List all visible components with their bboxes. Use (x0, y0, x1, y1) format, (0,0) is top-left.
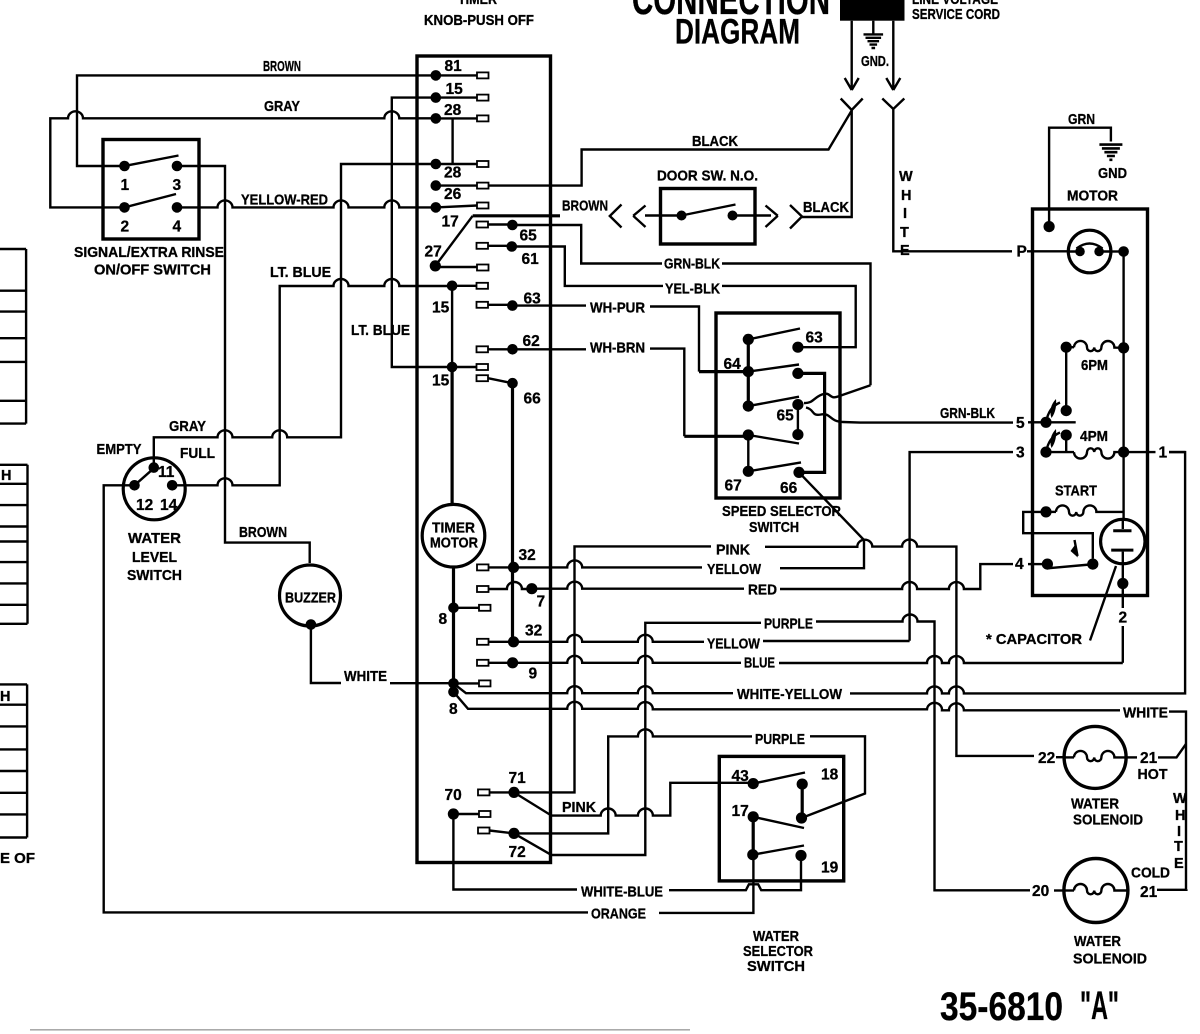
timer contact 26 (431, 180, 489, 203)
timer contact 70 (445, 787, 491, 820)
wire WH-BRN timer 62 to speed selector 67 (513, 341, 749, 437)
svg-text:TIMER: TIMER (432, 521, 476, 537)
wire YEL-BLK timer 61 to speed selector 63 (512, 247, 856, 348)
svg-text:ON/OFF SWITCH: ON/OFF SWITCH (94, 263, 211, 279)
svg-text:WHITE-BLUE: WHITE-BLUE (581, 885, 663, 901)
svg-text:19: 19 (821, 860, 839, 877)
svg-text:SIGNAL/EXTRA RINSE: SIGNAL/EXTRA RINSE (74, 245, 224, 261)
timer contact 15 junction (LT BLUE) (432, 281, 488, 368)
svg-text:H: H (1175, 808, 1185, 824)
svg-text:4PM: 4PM (1080, 429, 1108, 445)
service cord plug (black block) (840, 0, 905, 21)
wire YELLOW timer 32 to speed selector 66 (514, 472, 865, 578)
water solenoid HOT (1038, 726, 1168, 828)
svg-text:SOLENOID: SOLENOID (1073, 813, 1143, 829)
svg-text:62: 62 (523, 333, 540, 350)
timer box TIMER KNOB-PUSH OFF (417, 0, 551, 863)
svg-text:4: 4 (1015, 556, 1024, 573)
svg-text:1: 1 (1159, 445, 1168, 462)
svg-text:71: 71 (509, 770, 527, 787)
door switch DOOR SW. N.O. (610, 169, 802, 245)
svg-text:MOTOR: MOTOR (430, 536, 478, 552)
svg-text:SWITCH: SWITCH (127, 568, 182, 584)
svg-text:2: 2 (1119, 610, 1128, 627)
svg-text:KNOB-PUSH OFF: KNOB-PUSH OFF (424, 13, 534, 29)
timer contact 62 (477, 333, 540, 355)
svg-text:35-6810: 35-6810 (940, 985, 1063, 1029)
svg-text:YELLOW-RED: YELLOW-RED (241, 193, 328, 209)
timer contact 71 (478, 770, 526, 798)
svg-text:66: 66 (524, 391, 542, 408)
svg-text:WH-BRN: WH-BRN (590, 341, 645, 357)
svg-text:5: 5 (1016, 415, 1025, 432)
wire WHITE-BLUE timer 70 to water selector 19 (453, 814, 801, 901)
timer contact 8 (439, 603, 491, 629)
svg-text:64: 64 (724, 356, 742, 373)
svg-text:COLD: COLD (1131, 866, 1170, 882)
svg-text:SELECTOR: SELECTOR (743, 944, 813, 960)
svg-text:I: I (1177, 824, 1181, 840)
svg-text:HOT: HOT (1138, 767, 1168, 783)
svg-text:61: 61 (522, 251, 540, 268)
svg-text:11: 11 (158, 464, 175, 481)
svg-text:21: 21 (1140, 884, 1158, 901)
motor box (1033, 112, 1148, 596)
timer contact 32 (477, 547, 536, 573)
svg-text:32: 32 (525, 623, 542, 640)
terminal strip lower-left (cut off) (0, 684, 27, 837)
wire motor 3 to yellow (910, 452, 1013, 641)
wire GRAY top-left to timer 28 (50, 99, 436, 207)
wire GRN-BLK timer 65 to speed selector 65 (512, 225, 870, 403)
svg-text:BROWN: BROWN (562, 199, 608, 215)
timer contact 81 (431, 58, 489, 81)
scan artifact bottom (30, 1029, 690, 1031)
svg-text:YELLOW: YELLOW (707, 562, 761, 578)
svg-text:28: 28 (444, 102, 462, 119)
wire PINK timer 71 blade to water selector 43 (514, 783, 753, 816)
svg-text:"A": "A" (1080, 984, 1119, 1028)
wire WH-PUR timer 63 to speed selector 64 (512, 301, 748, 372)
wire WHITE buzzer to timer 8 (311, 625, 454, 686)
svg-text:9: 9 (529, 666, 538, 683)
svg-text:18: 18 (821, 767, 839, 784)
svg-text:PURPLE: PURPLE (755, 732, 805, 748)
svg-text:E: E (900, 243, 910, 259)
timer contact 61 (477, 241, 540, 268)
svg-text:2: 2 (121, 219, 130, 236)
water solenoid COLD (1032, 859, 1186, 968)
svg-text:T: T (900, 225, 909, 241)
ground GND at service cord (861, 21, 889, 70)
timer contact 32b (477, 623, 542, 648)
svg-text:SWITCH: SWITCH (747, 959, 805, 975)
svg-text:ORANGE: ORANGE (591, 907, 646, 923)
wire BLACK from service cord down to door switch connector (802, 110, 852, 217)
svg-text:28: 28 (444, 165, 462, 182)
svg-text:1: 1 (121, 177, 130, 194)
svg-text:43: 43 (732, 768, 750, 785)
switch WATER SELECTOR (719, 756, 843, 975)
svg-text:SOLENOID: SOLENOID (1073, 952, 1147, 968)
svg-text:PINK: PINK (562, 800, 597, 816)
svg-text:H: H (1, 468, 11, 484)
svg-text:YELLOW: YELLOW (707, 637, 760, 653)
switch SIGNAL/EXTRA RINSE ON/OFF (74, 140, 224, 279)
svg-text:BROWN: BROWN (239, 525, 287, 541)
svg-text:17: 17 (442, 214, 459, 231)
svg-text:21: 21 (1140, 750, 1158, 767)
svg-text:8: 8 (439, 611, 448, 628)
timer contact 72 (478, 828, 526, 862)
wire WHITE-YELLOW timer 8b to motor 1 (454, 452, 1186, 703)
wire PURPLE timer 72 to water selector 18 (514, 729, 865, 833)
part number 35-6810 "A" (940, 984, 1119, 1029)
timer contact 63 (477, 291, 542, 311)
svg-text:GRN-BLK: GRN-BLK (664, 257, 720, 273)
svg-text:26: 26 (444, 186, 462, 203)
svg-text:4: 4 (173, 219, 182, 236)
svg-text:WHITE: WHITE (1123, 706, 1168, 722)
svg-text:WATER: WATER (1071, 797, 1119, 813)
svg-text:WATER: WATER (1074, 934, 1121, 950)
svg-text:BLACK: BLACK (803, 200, 849, 216)
svg-text:81: 81 (445, 58, 463, 75)
svg-text:DIAGRAM: DIAGRAM (675, 12, 800, 51)
svg-text:72: 72 (509, 844, 526, 861)
svg-text:E: E (1174, 856, 1184, 872)
svg-text:GRAY: GRAY (169, 419, 206, 435)
wire BLUE timer 9 to capacitor 2 (513, 656, 1123, 672)
timer contact 15b (432, 362, 488, 390)
svg-text:PINK: PINK (716, 543, 751, 559)
svg-text:FULL: FULL (180, 446, 215, 462)
capacitor (986, 519, 1145, 663)
timer contact 7 (477, 582, 545, 611)
motor terminal 5 with switch blade (1016, 399, 1076, 432)
svg-text:65: 65 (520, 228, 538, 245)
line voltage service cord label (912, 0, 1000, 23)
svg-text:WHITE: WHITE (344, 669, 387, 685)
svg-text:WHITE-YELLOW: WHITE-YELLOW (737, 687, 842, 703)
svg-text:BLACK: BLACK (692, 134, 738, 150)
svg-text:TIMER: TIMER (458, 0, 497, 8)
svg-text:MOTOR: MOTOR (1067, 189, 1119, 205)
buzzer (280, 565, 341, 630)
svg-text:67: 67 (725, 478, 742, 495)
svg-text:65: 65 (777, 408, 795, 425)
wire PURPLE timer 72 blade to cold solenoid 20 (514, 615, 1064, 891)
svg-text:BUZZER: BUZZER (285, 591, 336, 607)
wire GRN-BLK motor 5 to speed selector 65 (806, 406, 1041, 423)
wire BLACK from service cord to timer 26 (436, 111, 852, 186)
terminal strip upper-left (cut off) (0, 249, 26, 424)
svg-text:8: 8 (449, 701, 458, 718)
svg-text:3: 3 (173, 177, 182, 194)
timer contact 8b (448, 678, 490, 718)
svg-text:H: H (0, 689, 10, 705)
wire WHITE from service cord down to motor P (893, 109, 1068, 259)
svg-text:7: 7 (537, 594, 546, 611)
svg-text:BROWN: BROWN (263, 59, 301, 75)
svg-text:RED: RED (748, 583, 777, 599)
wire from switch 3 down to buzzer (BROWN) (177, 166, 310, 563)
wire service cord right (white line) with connector (882, 21, 904, 109)
svg-text:SERVICE CORD: SERVICE CORD (912, 7, 1000, 23)
svg-text:DOOR SW. N.O.: DOOR SW. N.O. (657, 169, 758, 185)
motor start switch and terminal 4 (1015, 512, 1098, 573)
timer contact 66 (477, 375, 542, 642)
timer contact 28b (431, 159, 489, 182)
timer contact 28 (431, 102, 489, 164)
svg-text:LT. BLUE: LT. BLUE (351, 323, 410, 339)
svg-text:14: 14 (160, 497, 178, 514)
wire LT. BLUE water level 14 to timer 15 (172, 265, 452, 485)
svg-text:SWITCH: SWITCH (749, 520, 799, 536)
svg-text:* CAPACITOR: * CAPACITOR (986, 632, 1083, 648)
svg-text:GRAY: GRAY (264, 99, 300, 115)
svg-text:T: T (1174, 839, 1183, 855)
timer contact 9 (477, 657, 538, 682)
svg-text:EMPTY: EMPTY (97, 442, 142, 458)
wire YELLOW timer 32b to motor 3 (514, 635, 910, 653)
svg-text:W: W (1173, 791, 1187, 807)
switch WATER LEVEL (97, 442, 216, 584)
wire GRAY water level 11 to timer 28b (154, 164, 436, 468)
svg-text:START: START (1055, 484, 1097, 500)
motor START winding (1040, 484, 1122, 518)
svg-text:GRN-BLK: GRN-BLK (940, 406, 995, 422)
svg-text:22: 22 (1038, 750, 1055, 767)
svg-text:70: 70 (445, 787, 462, 804)
wire service cord left (black line) with connector (841, 21, 863, 110)
motor 4PM winding and terminal 3 (1016, 429, 1185, 462)
svg-text:66: 66 (780, 480, 798, 497)
timer contact 15 (392, 81, 489, 367)
svg-text:27: 27 (425, 244, 442, 261)
timer motor (422, 367, 485, 692)
svg-text:WH-PUR: WH-PUR (590, 301, 645, 317)
svg-text:15: 15 (446, 81, 464, 98)
wire PINK timer 71 to hot solenoid 22 (514, 540, 1064, 793)
wire WHITE timer 8b to hot solenoid 21 (454, 692, 1188, 889)
terminal strip middle-left (cut off) (0, 465, 28, 624)
svg-text:15: 15 (432, 300, 450, 317)
motor terminal P and rotor (1017, 230, 1129, 519)
svg-text:WATER: WATER (753, 929, 799, 945)
svg-text:WATER: WATER (128, 531, 182, 547)
svg-text:32: 32 (519, 547, 536, 564)
svg-text:GND.: GND. (861, 54, 889, 70)
svg-text:17: 17 (732, 803, 749, 820)
svg-text:15: 15 (432, 373, 450, 390)
svg-text:20: 20 (1032, 883, 1049, 900)
motor 6PM winding (1061, 341, 1130, 416)
timer contact 65 (477, 220, 538, 245)
svg-text:H: H (901, 188, 911, 204)
svg-text:E OF: E OF (0, 851, 35, 867)
svg-text:GRN: GRN (1068, 112, 1095, 128)
svg-text:YEL-BLK: YEL-BLK (665, 282, 720, 298)
svg-text:3: 3 (1016, 445, 1025, 462)
svg-text:SPEED SELECTOR: SPEED SELECTOR (722, 504, 841, 520)
svg-text:LEVEL: LEVEL (132, 550, 177, 566)
svg-text:GND: GND (1098, 166, 1127, 182)
svg-text:12: 12 (136, 497, 153, 514)
svg-text:63: 63 (806, 330, 824, 347)
wire YELLOW-RED switch 4 to timer 17 (177, 193, 436, 209)
svg-text:I: I (903, 206, 907, 222)
timer contact 17 (431, 202, 489, 230)
switch SPEED SELECTOR (716, 313, 841, 536)
svg-text:P: P (1017, 244, 1027, 261)
svg-text:W: W (899, 169, 913, 185)
title CONNECTION DIAGRAM (632, 0, 830, 51)
wire ORANGE water level 12 to water selector 17 (104, 485, 754, 922)
svg-text:6PM: 6PM (1081, 358, 1108, 374)
timer contact 27 (425, 216, 489, 272)
svg-text:LT. BLUE: LT. BLUE (270, 265, 331, 281)
wire BROWN timer 27 to door switch (473, 199, 608, 216)
wire BROWN top-left to timer 81 (77, 59, 436, 166)
svg-text:BLUE: BLUE (744, 656, 775, 672)
wire RED timer 7 to motor 4 (532, 564, 1043, 598)
svg-text:PURPLE: PURPLE (764, 617, 813, 633)
